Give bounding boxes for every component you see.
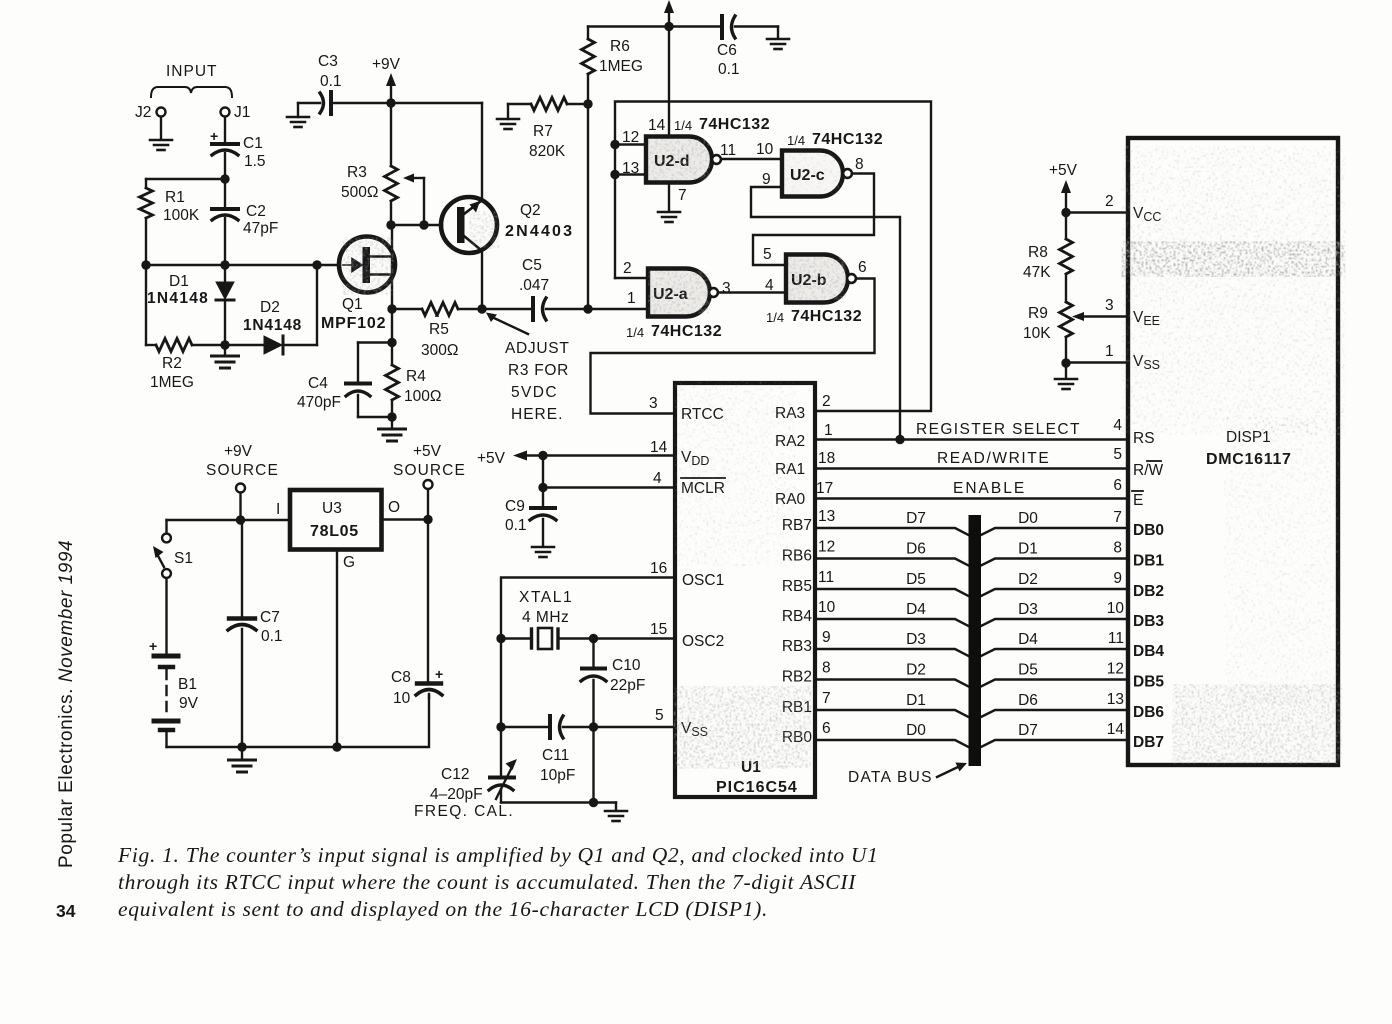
+9V terminal [236,484,245,493]
junction Q2 collector / C5 [477,304,486,313]
ground bus wire [167,696,430,747]
svg-text:10: 10 [393,690,411,707]
battery B1 [165,578,167,653]
svg-text:12: 12 [1107,661,1124,678]
svg-text:DB2: DB2 [1133,583,1164,600]
wire U2-a out to U2-b pin 4 [718,291,786,293]
svg-text:ENABLE: ENABLE [953,480,1026,497]
svg-text:1N4148: 1N4148 [147,290,209,307]
svg-text:through its RTCC input where t: through its RTCC input where the count i… [118,870,856,894]
junction pin 12 [610,140,619,149]
svg-text:11: 11 [720,142,736,159]
svg-text:+5V: +5V [477,450,506,467]
R9 wiper arrow / pin 3 VEE wire [1072,312,1084,321]
R3 wiper arrow [403,174,414,183]
svg-text:7: 7 [678,187,687,204]
svg-text:C9: C9 [505,498,525,515]
svg-text:C3: C3 [318,53,338,70]
ADJUST callout arrow [486,313,497,323]
svg-text:D6: D6 [906,541,926,558]
wire down to MCLR row [542,456,544,507]
pin 2 VCC wire [1066,211,1128,213]
nand gate U2-b [786,255,848,303]
svg-text:7: 7 [822,690,831,707]
svg-text:2: 2 [623,260,632,277]
svg-text:5: 5 [655,707,664,724]
svg-text:DB3: DB3 [1133,613,1164,630]
svg-text:R/W: R/W [1133,462,1164,479]
svg-text:10K: 10K [1023,325,1051,342]
ground below R9 [1065,363,1067,378]
svg-text:100K: 100K [163,207,200,224]
U1 right pin numbers [818,508,836,737]
svg-text:R2: R2 [162,355,182,372]
resistor R5 [392,308,422,310]
svg-text:C4: C4 [308,375,328,392]
svg-text:DB6: DB6 [1133,704,1164,721]
wire OSC2 [594,637,676,639]
svg-text:+5V: +5V [413,443,442,460]
svg-text:11: 11 [1108,630,1124,647]
svg-text:1: 1 [824,422,833,439]
svg-text:1N4148: 1N4148 [243,317,302,334]
svg-text:74HC132: 74HC132 [699,116,770,133]
svg-text:1MEG: 1MEG [599,58,643,75]
svg-text:G: G [343,554,355,571]
capacitor C6 [720,16,724,38]
svg-text:D4: D4 [1018,631,1038,648]
svg-text:R7: R7 [533,123,553,140]
svg-text:1: 1 [627,290,636,307]
svg-text:+5V: +5V [1049,162,1078,179]
svg-text:Q2: Q2 [520,202,541,219]
svg-text:+: + [210,128,218,144]
svg-text:4: 4 [1113,417,1122,434]
svg-text:15: 15 [650,621,667,638]
svg-text:R6: R6 [610,38,630,55]
svg-text:6: 6 [822,720,831,737]
U2-c pin 9 loop to register select [751,187,900,440]
ground below D1 [224,345,226,355]
svg-text:300Ω: 300Ω [421,342,458,359]
svg-text:3: 3 [1105,297,1114,314]
wire RB2 to DB5 [815,680,969,687]
svg-text:1/4: 1/4 [626,325,644,340]
junction ground node [589,798,598,807]
RB pin labels [782,517,813,746]
pin 2 stub U2-a [615,277,648,279]
wire RB3 to DB4 [815,649,969,656]
svg-text:13: 13 [1107,691,1124,708]
feedback box wire RA3 to U2 inputs [615,102,931,412]
U3 ground leg G [336,550,338,748]
resistor R2 [146,344,156,346]
svg-text:D0: D0 [1018,510,1038,527]
svg-text:RS: RS [1133,430,1155,447]
svg-text:D3: D3 [1018,601,1038,618]
base wire R3 to Q2 [391,224,442,226]
junction D2 branch [312,260,321,269]
wire to U2-a pin 1 [588,308,648,310]
capacitor C7 [241,520,243,616]
pin 13 stub [615,173,648,175]
svg-text:D1: D1 [1018,541,1038,558]
D labels left of bus [906,510,926,739]
U2-b pin 6 loop down to RTCC [591,279,875,414]
wire Q1 drain-source vertical [391,225,393,309]
svg-text:D6: D6 [1018,692,1038,709]
gate signal wire [146,264,340,266]
nand gate U2-c [782,151,843,197]
junction Q1 source / C4 branch [387,338,396,347]
svg-text:D2: D2 [260,299,280,316]
svg-text:C10: C10 [612,657,641,674]
ground for crystal loop [594,801,617,803]
svg-text:14: 14 [650,439,668,456]
junction C10/VSS row [589,722,598,731]
junction VDD tap [538,451,547,460]
svg-text:3: 3 [722,280,731,297]
svg-text:XTAL1: XTAL1 [519,589,573,606]
svg-text:E: E [1133,492,1143,509]
svg-text:DB5: DB5 [1133,674,1164,691]
svg-text:9: 9 [822,629,831,646]
svg-text:Fig. 1. The counter’s input si: Fig. 1. The counter’s input signal is am… [117,843,879,867]
svg-text:13: 13 [622,160,639,177]
svg-text:10: 10 [818,599,836,616]
svg-text:74HC132: 74HC132 [791,308,862,325]
svg-text:78L05: 78L05 [310,523,359,540]
svg-text:5: 5 [763,246,772,263]
Q2 collector wire [481,251,483,309]
svg-text:.047: .047 [519,277,549,294]
junction C1/R1 [220,174,229,183]
svg-text:J2: J2 [135,104,151,121]
svg-text:2: 2 [822,393,831,410]
svg-text:0.1: 0.1 [505,517,527,534]
supply arrow to U2 pin 14 [664,0,674,13]
wire C1 to node [224,153,226,207]
svg-text:OSC1: OSC1 [682,572,724,589]
svg-text:1: 1 [1105,343,1114,360]
svg-text:OSC2: OSC2 [682,633,724,650]
svg-text:B1: B1 [178,676,197,693]
svg-text:4 MHz: 4 MHz [522,609,569,626]
svg-text:47K: 47K [1023,264,1051,281]
junction C7/ground [237,742,246,751]
svg-text:D1: D1 [906,692,926,709]
signal pull wire down to U2-a pin 1 [587,104,589,309]
svg-text:R9: R9 [1028,305,1048,322]
resistor R7 [497,119,519,129]
+9V input wire [167,519,291,521]
wire node to R1 top [146,178,225,180]
svg-text:I: I [276,501,280,518]
wire D2 up to gate wire [316,265,318,345]
svg-text:D5: D5 [906,571,926,588]
svg-text:DB1: DB1 [1133,553,1164,570]
wire J2 to ground [160,117,162,139]
svg-text:REGISTER SELECT: REGISTER SELECT [916,421,1081,438]
wire C2 to gate node [224,218,226,265]
wire J1 to C1 [224,117,226,142]
svg-text:RB3: RB3 [782,638,812,655]
svg-text:C2: C2 [246,203,266,220]
svg-text:8: 8 [1113,540,1122,557]
svg-text:5: 5 [1113,446,1122,463]
svg-text:0.1: 0.1 [718,61,740,78]
DISP1 pin numbers [1107,417,1125,738]
svg-text:12: 12 [622,129,639,146]
wire RB0 to DB7 [815,740,969,747]
nand gate U2-a [648,269,710,317]
svg-text:Popular Electronics. November: Popular Electronics. November 1994 [56,540,77,868]
+5V output wire [382,518,429,520]
capacitor C8 [427,520,429,682]
svg-text:470pF: 470pF [297,394,341,411]
OSC1 loop wire [501,578,675,728]
svg-text:J1: J1 [234,104,250,121]
pin 1 VSS wire [1061,358,1070,367]
svg-text:D4: D4 [906,601,926,618]
svg-text:RB2: RB2 [782,669,812,686]
svg-text:13: 13 [818,508,835,525]
svg-text:0.1: 0.1 [261,628,283,645]
svg-text:17: 17 [816,480,833,497]
wire U2-d out to U2-c [721,158,782,160]
resistor R1 [145,179,147,188]
svg-text:0.1: 0.1 [320,73,342,90]
svg-text:Q1: Q1 [342,296,363,313]
wire R1 to R2 [145,265,147,345]
svg-text:R5: R5 [429,321,449,338]
svg-text:RB5: RB5 [782,578,812,595]
svg-text:DB4: DB4 [1133,643,1164,660]
svg-text:4–20pF: 4–20pF [430,786,483,803]
svg-text:47pF: 47pF [243,220,278,237]
+9V arrow [386,73,396,86]
svg-text:74HC132: 74HC132 [812,131,883,148]
top rail wire [588,25,722,27]
transistor Q1 MPF102 JFET [339,237,395,293]
svg-text:R3: R3 [347,164,367,181]
svg-text:DB0: DB0 [1133,522,1164,539]
junction MCLR/C9 [538,483,547,492]
svg-text:S1: S1 [174,550,193,567]
wire RB5 to DB2 [815,589,969,596]
display DISP1 box [1128,138,1338,765]
ground below J2 [150,140,172,150]
svg-text:100Ω: 100Ω [404,388,441,405]
+9V rail junction [386,98,395,107]
junction wiper [419,220,428,229]
svg-text:5VDC: 5VDC [511,384,558,401]
svg-text:DATA BUS: DATA BUS [848,769,933,786]
svg-text:D2: D2 [1018,571,1038,588]
svg-text:D2: D2 [906,662,926,679]
svg-text:C1: C1 [243,135,263,152]
ground right of C6 [777,27,779,39]
svg-text:+: + [149,638,157,654]
svg-text:3: 3 [649,395,658,412]
svg-text:DB7: DB7 [1133,734,1164,751]
diode D2 [225,344,264,346]
switch S1 [165,520,167,534]
svg-text:equivalent is sent to and disp: equivalent is sent to and displayed on t… [118,897,768,921]
svg-text:C12: C12 [441,766,469,783]
junction C5/pin1 [583,304,592,313]
svg-text:8: 8 [855,156,864,173]
svg-text:U3: U3 [322,500,342,517]
svg-text:HERE.: HERE. [511,406,563,423]
DATA BUS arrow [937,766,960,777]
svg-text:+9V: +9V [224,443,253,460]
svg-text:2: 2 [1105,193,1114,210]
svg-text:34: 34 [56,901,76,921]
svg-text:9V: 9V [179,695,199,712]
brace under INPUT [151,87,232,97]
svg-text:820K: 820K [529,143,566,160]
diode D1 [224,265,226,281]
wire to R4 [391,309,393,365]
D labels right of bus [1018,510,1038,739]
capacitor C4 branch [358,341,392,343]
data bus bar [969,515,982,766]
+9V rail to Q2 emitter [391,102,482,104]
junction U3 G [332,742,341,751]
capacitor C12 variable [500,727,502,776]
svg-text:PIC16C54: PIC16C54 [716,779,798,796]
svg-text:R4: R4 [406,368,426,385]
svg-text:D7: D7 [1018,722,1038,739]
svg-text:74HC132: 74HC132 [651,323,722,340]
svg-text:1/4: 1/4 [674,118,692,133]
svg-text:10pF: 10pF [540,767,575,784]
svg-text:C6: C6 [717,42,737,59]
junction top rail [664,22,673,31]
junction C2/D1 [220,260,229,269]
svg-text:22pF: 22pF [610,677,645,694]
svg-text:D1: D1 [169,273,189,290]
ground below R4 [391,417,393,428]
U2-c pin 8 loop to U2-b pin 5 [753,174,874,266]
svg-text:1/4: 1/4 [787,133,805,148]
svg-text:9: 9 [1113,570,1122,587]
wire MCLR [543,486,675,488]
svg-text:16: 16 [650,560,667,577]
svg-text:C5: C5 [522,257,542,274]
svg-text:O: O [388,499,400,516]
svg-text:C7: C7 [260,609,280,626]
svg-text:10: 10 [756,141,774,158]
svg-text:1MEG: 1MEG [150,374,194,391]
svg-text:1/4: 1/4 [766,310,784,325]
wire RB7 to DB0 [815,528,1128,747]
svg-text:14: 14 [1107,721,1125,738]
svg-text:+: + [435,666,443,682]
regulator U3 78L05 [290,490,382,550]
svg-text:READ/WRITE: READ/WRITE [937,450,1050,467]
svg-text:4: 4 [653,470,662,487]
svg-text:8: 8 [822,660,831,677]
svg-text:18: 18 [818,450,835,467]
svg-text:D7: D7 [906,510,926,527]
junction pin 13 [610,170,619,179]
svg-text:+9V: +9V [372,56,401,73]
svg-text:INPUT: INPUT [166,63,218,80]
resistor R3 potentiometer [390,103,392,166]
wire C12 to ground node [501,801,594,803]
svg-text:D5: D5 [1018,662,1038,679]
svg-text:10: 10 [1107,600,1125,617]
junction R4/C4 [387,412,396,421]
capacitor C2 [212,207,238,211]
svg-text:14: 14 [648,117,666,134]
svg-text:11: 11 [818,569,834,586]
svg-text:7: 7 [1113,509,1122,526]
junction R3 bottom [386,220,395,229]
wire RB1 to DB6 [815,710,969,717]
svg-text:6: 6 [1113,477,1122,494]
svg-text:ADJUST: ADJUST [505,340,569,357]
svg-text:RB4: RB4 [782,608,813,625]
svg-text:C11: C11 [542,747,569,764]
svg-text:SOURCE: SOURCE [206,462,279,479]
svg-text:2N4403: 2N4403 [505,223,574,240]
svg-text:D0: D0 [906,722,926,739]
nand gate U2-d [646,137,712,183]
junction Q1 source [387,304,396,313]
svg-text:9: 9 [762,171,771,188]
svg-text:1.5: 1.5 [244,153,266,170]
junction R1 bottom [141,260,150,269]
transistor Q2 2N4403 [441,197,497,253]
svg-text:6: 6 [858,259,867,276]
svg-text:D3: D3 [906,631,926,648]
resistor R4 [386,365,399,400]
svg-text:R8: R8 [1028,244,1048,261]
pin names DB0-DB7 [1133,522,1164,751]
svg-text:SOURCE: SOURCE [393,462,466,479]
resistor R9 potentiometer [1060,302,1073,337]
resistor R6 [587,27,589,40]
svg-text:R1: R1 [165,189,185,206]
wire RB6 to DB1 [815,559,969,566]
+5V terminal [424,480,433,489]
IC U1 box [675,383,815,797]
svg-text:12: 12 [818,539,835,556]
svg-text:MPF102: MPF102 [321,315,386,332]
pin 12 stub [615,143,648,145]
U2-d pin 7 ground [668,183,670,212]
capacitor C11 [548,716,552,738]
wire VDD [543,454,675,456]
wire RB4 to DB3 [815,619,969,626]
svg-text:C8: C8 [391,669,411,686]
svg-text:R3 FOR: R3 FOR [508,362,569,379]
resistor R8 [1065,213,1067,240]
junction D1/R2/D2/ground [220,340,229,349]
+5V arrow left [513,451,527,461]
main ground [241,747,243,759]
svg-text:500Ω: 500Ω [341,184,378,201]
svg-text:FREQ. CAL.: FREQ. CAL. [414,803,514,820]
junction R6/R7/signal [583,99,592,108]
